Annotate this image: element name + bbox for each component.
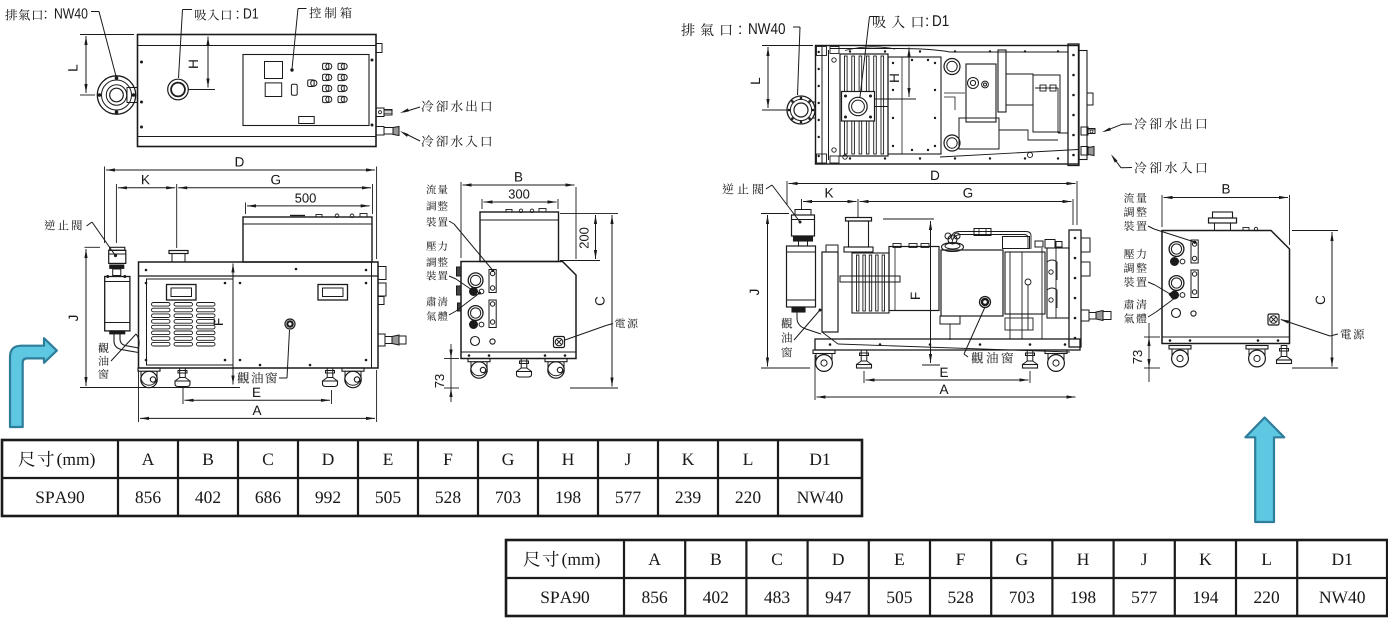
label 排氣口: NW40 (top view) with leader [5,8,117,80]
dimension C (left side view) [570,215,618,388]
label 逆止閥 (right) with leader [722,183,801,223]
top piping (right front) [893,229,1062,252]
label 冷卻水入口 (right top) with leader [1110,153,1207,173]
dimension 73 (right side view) [1133,323,1160,382]
side panel knobs and valves [457,267,497,346]
right nameplate [318,285,348,301]
pump body (right front view) [822,245,1069,332]
side view body [461,262,576,359]
top tank box [243,214,372,263]
dimension K (right group) [802,188,859,217]
small tab top-right (top view) [376,44,382,53]
casters and feet (left front view) [138,368,364,388]
suction square flange with circle (top view) [842,92,889,122]
dimension H (right top view) [875,48,917,100]
cooling inlet fitting (right top view) [1081,147,1094,156]
right side fittings (front view) [378,267,406,347]
base frame (right front view) [815,339,1080,350]
label 逆止閥 with leader [44,220,117,257]
label 流量調整裝置 (right group) with leader [1124,193,1196,244]
label 吸入口: D1 (right) with leader [860,15,949,97]
piping (top view) [830,47,1078,159]
dimension D (left front view) [105,157,377,259]
dimension 500 [246,193,370,214]
dimension L (top view) [68,35,134,96]
right dimension table [506,540,1387,616]
dimension B (left side view) [461,172,576,259]
bolt rows along top and bottom edges (right top view) [817,47,1060,164]
dimension A [139,370,377,422]
dimension L (right top view) [751,46,813,111]
dimension K [116,175,176,248]
louver panel [147,279,234,365]
oil separator detail (right front low) [822,279,1070,352]
casters (right side view) [1169,346,1292,367]
label 冷卻水出口 (right top) with leader [1101,118,1206,134]
frame posts and piping right section (front view) [1005,248,1057,339]
side view casters [468,359,567,379]
cooling water inlet fitting (top view) [376,127,399,136]
control box (top view) [243,55,369,126]
dimension J [69,247,240,387]
label 冷卻水入口 (top view) with leader [399,130,491,147]
left dimension table [2,440,862,516]
cooling outlet fitting (right top view) [1081,127,1095,135]
right end plate (front view) [1069,230,1090,347]
cooling water outlet fitting (top view) [376,108,392,117]
label 觀油窗 vertical (left) with leader [98,334,139,379]
dimension F (right group) [883,219,940,365]
dimension C (right side view) [1292,231,1338,369]
casters and feet (right front view) [813,350,1067,371]
top port circle [944,59,960,75]
label 觀油窗 horizontal with leader [238,330,290,384]
louver slats [152,303,216,347]
ribbed pump block (top view) [840,54,888,156]
intake pipe (right front) [844,218,873,253]
sight glass circle (right front) [980,297,991,308]
label 肅清氣體 (right group) with leader [1124,295,1179,324]
dimension J (right group) [750,214,810,369]
label 冷卻水出口 (top view) with leader [399,100,491,114]
bottom port circle [944,135,960,151]
label 肅清氣體 (left) with leader [426,292,481,321]
gearbox / motor block (top view right) [959,50,1060,149]
right top view: pump without cover [816,46,1079,165]
label 電源 (left side view) with leader [565,318,638,340]
left nameplate [167,285,197,301]
oil sight glass (front) [285,319,295,329]
oil mist filter cylinder (left) [105,277,139,353]
oil mist filter (right front) [787,246,822,334]
dimension G (right group) [860,188,1074,225]
dimension E (right group) [864,368,1030,383]
exhaust flange (right top view) [787,96,816,124]
label 觀油窗 vertical (right) with leader [781,309,821,358]
dimension G [178,175,372,214]
left top view: pump with cover [138,35,377,147]
power socket (right side view) [1268,314,1279,325]
dimension B (right side view) [1162,184,1290,245]
drain fitting right (front view) [1081,310,1111,321]
right end plate (top view) [1068,44,1093,166]
intake stub on machine top [169,251,188,263]
cyan up arrow (bottom right) [1245,418,1284,523]
side top tank box [480,209,559,262]
side panel knobs (right side view) [1169,240,1198,318]
label 觀油窗 horizontal (right) with leader [964,307,1013,364]
right side view body [1162,227,1290,343]
label 吸入口: D1 (top view) with leader [179,8,259,78]
dimension D (right group) [787,171,1077,225]
label 壓力調整裝置 (left) with leader [426,241,474,292]
dimension 300 [482,189,558,209]
dimension A (right group) [815,355,1076,400]
label 控制箱 (top view) with leader [290,7,351,72]
dimension F line (front view) [214,264,235,385]
dimension H (top view) [188,37,215,90]
label 壓力調整裝置 (right group) with leader [1124,249,1172,296]
exhaust flange NW40 (top view) [97,76,137,114]
check valve (right front) [792,210,815,247]
top cap (right side view) [1209,212,1237,231]
machine body (front view) [139,262,379,368]
dimension 200 [560,213,618,260]
cyan bent arrow (bottom left) [10,338,57,427]
dimension 73 (left side view) [435,344,459,402]
label 排氣口: NW40 (right) with leader [681,23,800,95]
check valve assembly (left) [106,247,126,278]
mid plate section (top view) [888,57,941,154]
suction port circle (top view) [168,79,189,100]
label 電源 (right side view) with leader [1280,318,1365,340]
power socket (left side view) [554,337,565,348]
label 流量調整裝置 (left) with leader [426,184,494,272]
small circle (top view center) [982,81,989,88]
dimension E [183,388,332,404]
